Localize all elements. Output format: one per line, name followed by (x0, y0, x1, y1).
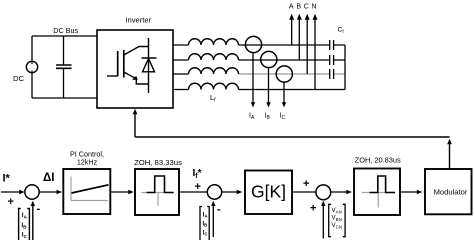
svg-text:If*: If* (193, 168, 202, 180)
svg-text:IA: IA (203, 213, 208, 219)
svg-text:ΔI: ΔI (43, 172, 54, 184)
svg-text:Inverter: Inverter (125, 16, 151, 25)
svg-text:+: + (195, 181, 201, 193)
svg-text:IB: IB (203, 222, 208, 228)
svg-text:+: + (8, 196, 14, 208)
svg-text:G[K]: G[K] (251, 182, 286, 202)
svg-text:C: C (304, 4, 309, 11)
svg-text:-: - (217, 204, 221, 216)
svg-text:+: + (303, 178, 309, 190)
svg-text:N: N (311, 4, 316, 11)
svg-text:I*: I* (3, 173, 11, 185)
svg-text:IC: IC (203, 231, 208, 237)
svg-text:DC Bus: DC Bus (53, 26, 78, 35)
svg-text:ZOH, 20.83us: ZOH, 20.83us (355, 155, 401, 164)
svg-text:Modulator: Modulator (434, 188, 468, 197)
svg-text:A: A (289, 4, 294, 11)
svg-text:+: + (310, 203, 316, 215)
svg-text:DC: DC (13, 74, 24, 83)
svg-text:12kHz: 12kHz (77, 158, 98, 167)
svg-text:B: B (296, 4, 301, 11)
svg-text:ZOH, 83.33us: ZOH, 83.33us (134, 158, 182, 167)
svg-text:-: - (37, 203, 41, 215)
